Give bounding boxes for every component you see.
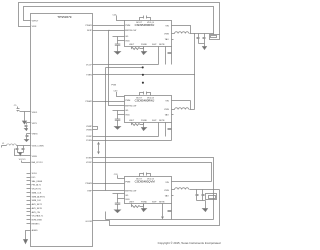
svg-text:PGND: PGND [141,44,148,46]
svg-text:SGP: SGP [152,201,157,203]
svg-text:AVS_SET1: AVS_SET1 [32,203,43,206]
svg-text:BOOT: BOOT [136,178,143,180]
svg-text:PWM: PWM [125,100,130,102]
svg-text:V5IN: V5IN [32,26,37,28]
svg-text:SYSP: SYSP [86,136,92,138]
svg-text:LSET: LSET [129,201,135,203]
svg-text:DIO: DIO [32,177,36,179]
svg-text:AVS_SET0: AVS_SET0 [32,207,43,210]
svg-text:PVIN: PVIN [111,85,116,87]
svg-text:VSW: VSW [164,190,169,192]
svg-text:LSET: LSET [129,44,135,46]
svg-text:VR_FAULTn: VR_FAULTn [32,215,44,218]
svg-text:VDD_B: VDD_B [147,97,155,99]
svg-text:TAO: TAO [165,38,170,41]
svg-text:PWM: PWM [125,25,130,27]
svg-text:RESETn: RESETn [32,223,41,225]
svg-text:SETB: SETB [159,201,165,203]
svg-text:PWM: PWM [125,181,130,183]
svg-text:TAO: TAO [165,195,170,198]
svg-text:AGND: AGND [32,229,39,232]
svg-text:VSNP: VSNP [86,126,92,128]
svg-text:VIN: VIN [165,182,169,184]
svg-text:ENP/SLOW: ENP/SLOW [125,30,136,32]
svg-text:PWM1: PWM1 [86,25,93,27]
svg-text:SAL_DATA: SAL_DATA [32,180,43,183]
svg-text:TPS53679: TPS53679 [57,15,72,19]
svg-text:VCCP: VCCP [86,64,92,66]
svg-text:ENP/SLOW: ENP/SLOW [125,106,136,108]
svg-text:VDD5: VDD5 [32,112,38,114]
svg-text:VOSN: VOSN [86,157,92,159]
svg-text:Copyright © 2015, Texas Instru: Copyright © 2015, Texas Instruments Inco… [158,241,221,245]
svg-text:PWM2: PWM2 [86,101,93,103]
svg-text:BOOT: BOOT [136,22,143,24]
svg-text:NVM_ENB: NVM_ENB [32,220,43,222]
svg-text:SETB: SETB [159,120,165,122]
svg-text:PGND: PGND [141,201,148,203]
svg-text:PIN_ALTn: PIN_ALTn [32,184,42,187]
svg-text:SMB_DIO: SMB_DIO [32,200,42,202]
svg-text:V3P3: V3P3 [32,123,38,125]
svg-text:ENP: ENP [88,190,93,192]
svg-text:V5FILT: V5FILT [32,21,39,23]
svg-text:VOSP: VOSP [86,162,92,164]
svg-text:TSEN: TSEN [86,74,92,76]
svg-text:SMB_ALERTn: SMB_ALERTn [32,195,46,198]
svg-text:VSW: VSW [164,34,169,36]
svg-text:AVS_ON: AVS_ON [32,211,41,214]
svg-text:BOOT: BOOT [136,97,143,99]
svg-text:SCLK: SCLK [32,173,38,175]
svg-text:GD: GD [125,195,129,197]
svg-text:VR_HOTn: VR_HOTn [32,189,42,191]
svg-text:VREG: VREG [32,133,38,135]
svg-text:SYSN: SYSN [86,140,92,142]
svg-text:VIN: VIN [165,101,169,103]
svg-text:V5IN_CONN: V5IN_CONN [32,145,44,147]
svg-text:VDD_B: VDD_B [147,178,155,180]
svg-text:BIA_VCCIO: BIA_VCCIO [32,161,43,164]
svg-text:SGP: SGP [152,120,157,122]
svg-text:V5FB: V5FB [32,156,38,158]
svg-text:GCOM: GCOM [85,221,92,223]
svg-text:VGD: VGD [125,115,130,117]
svg-text:SKIP: SKIP [87,30,92,32]
svg-text:SETB: SETB [159,44,165,46]
svg-text:PWM3: PWM3 [86,183,93,185]
svg-text:VCCIO: VCCIO [19,159,26,161]
svg-text:GD: GD [125,110,129,112]
svg-text:VIN: VIN [165,25,169,27]
svg-text:VGD: VGD [125,41,130,43]
svg-text:VSNS: VSNS [86,130,92,132]
svg-text:SMB_CLK: SMB_CLK [32,192,42,194]
svg-text:VDD_B: VDD_B [147,22,155,24]
svg-text:SGP: SGP [152,44,157,46]
svg-text:VSW: VSW [164,109,169,111]
svg-text:PGND: PGND [141,120,148,122]
svg-text:GD: GD [125,36,129,38]
svg-text:LSET: LSET [129,120,135,122]
svg-text:ENP/SLOW: ENP/SLOW [125,190,136,192]
svg-text:TAO: TAO [165,114,170,117]
